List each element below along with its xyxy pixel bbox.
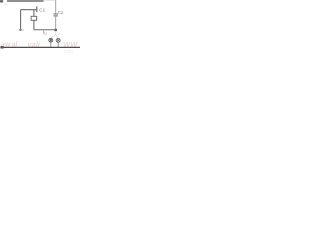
node junction bbox=[54, 29, 57, 32]
background bbox=[0, 0, 80, 53]
wire right vertical upper bbox=[55, 0, 57, 14]
wire mid horizontal bbox=[34, 29, 56, 31]
voltage arrow u bbox=[43, 30, 45, 34]
wire junction to split bbox=[55, 31, 57, 34]
lamp L1 lead up bbox=[51, 35, 56, 39]
terminal dot (switch) bbox=[19, 29, 21, 31]
svg-text:C2: C2 bbox=[58, 10, 64, 15]
wire left vertical bbox=[20, 10, 22, 30]
lamp L2 lead down bbox=[57, 43, 59, 48]
resistor R1 box bbox=[31, 16, 37, 20]
lamp L2 bbox=[56, 38, 60, 42]
svg-text:C1: C1 bbox=[39, 7, 45, 12]
wire top-mid horizontal bbox=[21, 9, 37, 11]
lamp L1 lead down bbox=[50, 42, 52, 47]
wire resistor bottom lead bbox=[33, 20, 35, 29]
svg-text:k: k bbox=[22, 28, 24, 32]
svg-text:com: com bbox=[64, 49, 73, 53]
capacitor C1 plate bbox=[36, 6, 38, 12]
wire bottom bbox=[4, 46, 80, 48]
svg-text:2: 2 bbox=[58, 32, 60, 36]
stray mark bbox=[5, 3, 7, 5]
capacitor C2 bbox=[54, 14, 58, 16]
wire right vertical mid bbox=[55, 17, 57, 30]
lamp L2 lead up bbox=[56, 35, 59, 39]
wire resistor top lead bbox=[33, 10, 35, 17]
cropped label top-left bbox=[0, 0, 3, 3]
bottom-left stub bbox=[0, 46, 3, 48]
wire top right (faint) bbox=[44, 0, 57, 1]
wire top bbox=[7, 0, 44, 2]
lamp L1 bbox=[49, 38, 53, 42]
watermark bbox=[1, 40, 78, 55]
